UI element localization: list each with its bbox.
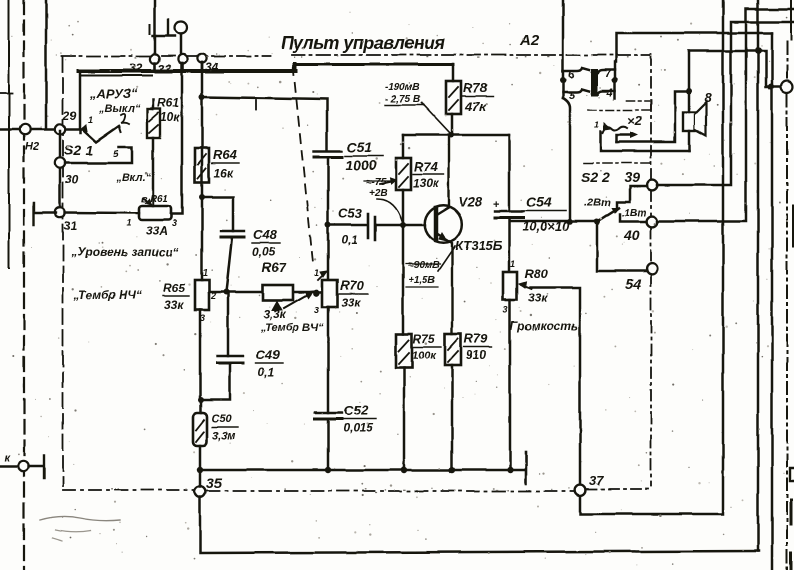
svg-text:С49: С49 (256, 347, 281, 362)
wire: node29 drop to node 30 and 31 (59, 131, 62, 212)
wire: ground stem into terminal 32 (154, 0, 157, 54)
svg-text:1: 1 (88, 115, 93, 125)
wire: (202,97) to C51 corner (202, 97, 327, 150)
svg-text:33к: 33к (164, 298, 184, 312)
terminal on left dashed border (bottom) (0, 465, 18, 468)
potentiometer R65 (195, 280, 209, 310)
svg-text:7: 7 (605, 68, 612, 80)
wire: node30 to Вкл contact hook (65, 147, 132, 163)
wire: R74 bottom through base node to R75 (402, 190, 405, 334)
R74 wiper arrow (380, 181, 394, 184)
wire: pot right to x182 riser (171, 63, 182, 214)
svg-text:Н2: Н2 (25, 141, 39, 153)
svg-text:0,05: 0,05 (252, 245, 276, 259)
svg-text:33: 33 (158, 62, 172, 76)
mechanical link dashed diagonal (293, 66, 313, 263)
svg-text:R65: R65 (163, 281, 185, 295)
svg-text:„АРУЗ“: „АРУЗ“ (89, 86, 138, 101)
svg-text:3: 3 (200, 313, 205, 323)
svg-text:3: 3 (503, 305, 508, 315)
wire: 39 right to riser x731 (657, 22, 794, 185)
wire: pin5 down to S2.2 common (563, 98, 570, 222)
wire: R70 bottom to C52 (327, 307, 330, 413)
X2 pin1 tick (604, 123, 611, 130)
svg-text:.1Вт: .1Вт (622, 208, 647, 219)
wire: C52 to bottom bus (327, 419, 330, 470)
capacitor C53 (368, 214, 375, 240)
node at (226,292) (223, 289, 229, 295)
switch S2.1 arm (84, 126, 119, 142)
svg-text:С50: С50 (211, 413, 232, 425)
S2.2 arm (597, 208, 619, 222)
potentiometer R70 (322, 280, 337, 307)
wire: R74 top lead (402, 135, 405, 158)
wire: vertical drop x=46 into y129 (45, 0, 48, 128)
transistor V28 body (425, 205, 463, 243)
svg-text:R61: R61 (157, 96, 179, 110)
svg-text:1: 1 (314, 268, 319, 278)
svg-text:.2Вт: .2Вт (584, 197, 611, 209)
wire: pivot down to 54 (597, 222, 646, 271)
link arrow R67 to R70 (284, 292, 312, 308)
terminal 54 (647, 264, 658, 275)
svg-text:39: 39 (624, 169, 640, 185)
svg-text:+2В: +2В (369, 188, 388, 199)
svg-text:1000: 1000 (345, 157, 376, 173)
R70 lead arrow (318, 272, 326, 280)
pointer +1,5B to emitter (438, 246, 455, 271)
dashed block border: top (dash-dot) (62, 55, 651, 56)
svg-text:32: 32 (129, 61, 143, 75)
svg-text:в R61: в R61 (141, 194, 169, 205)
wire: R79 bottom to bus (451, 365, 454, 470)
svg-text:R64: R64 (213, 147, 238, 162)
svg-text:- 2,75 В: - 2,75 В (385, 94, 421, 105)
svg-text:≈90мВ: ≈90мВ (408, 260, 439, 271)
node at (689,91) (686, 88, 692, 94)
node at (201,400) (198, 397, 204, 403)
svg-text:910: 910 (466, 348, 486, 362)
wire: pin7 up and right y=33 (616, 33, 772, 62)
dashed block border: bottom (63, 489, 194, 491)
wire: X2 pin1 to speaker top loop (617, 91, 689, 142)
base bar (434, 208, 439, 240)
wire: node31 to pot R61 (65, 211, 139, 214)
S2.2 common wire and pivot (594, 219, 600, 225)
wire: ground return loop bottom (200, 497, 759, 553)
X2 arrow (617, 135, 632, 142)
svg-text:5: 5 (113, 149, 119, 160)
collector lead (436, 135, 449, 215)
svg-text:10,0×10: 10,0×10 (522, 219, 570, 234)
S2.2 contact 40 (620, 214, 646, 222)
АРУЗ box left edge (79, 74, 82, 133)
svg-text:1: 1 (594, 120, 599, 130)
svg-text:100к: 100к (412, 350, 437, 362)
wire: 40 right to riser x747 (657, 9, 794, 222)
emitter lead with arrow (436, 233, 452, 334)
svg-text:29: 29 (62, 109, 77, 123)
svg-text:„Выкл“: „Выкл“ (98, 103, 141, 115)
terminal 40 (647, 216, 658, 227)
svg-text:4: 4 (606, 87, 613, 99)
stray tick (255, 100, 257, 110)
svg-text:С52: С52 (344, 403, 369, 418)
svg-text:С51: С51 (347, 139, 373, 155)
node 31 terminal (55, 207, 65, 217)
svg-text:R70: R70 (340, 278, 365, 293)
svg-text:6: 6 (568, 69, 575, 81)
svg-text:3,3к: 3,3к (263, 307, 287, 321)
dashed block border: right (650, 54, 652, 486)
wire: C51 bottom to junction (327, 157, 330, 280)
svg-text:С53: С53 (338, 206, 363, 221)
S2.2 dash-dot box top (584, 162, 652, 164)
terminal 33 (178, 54, 187, 63)
pointer from +2B to base node (377, 199, 402, 221)
svg-text:0,015: 0,015 (343, 421, 373, 435)
capacitor C52 (315, 412, 342, 414)
node at (403,225) (400, 222, 406, 228)
svg-text:„Тембр ВЧ“: „Тембр ВЧ“ (260, 322, 324, 334)
bus terminator bar (525, 452, 528, 484)
pointer -2,75B to collector node (422, 103, 450, 133)
scan speckle (257, 87, 259, 89)
resistor R75 (hatched) (396, 334, 412, 368)
svg-text:33к: 33к (341, 296, 361, 310)
node at (452,470) (449, 467, 455, 473)
sheet border left solid (8, 0, 10, 268)
wire: C48 bottom to tone wire (226, 237, 232, 292)
node 30 terminal (55, 158, 65, 168)
capacitor C50 (hatched body) (193, 413, 207, 446)
faint pencil scribble bottom-left (40, 516, 120, 520)
R67 wiper arrow below (272, 301, 282, 310)
trimmer R67 (263, 285, 293, 300)
svg-text:R79: R79 (464, 331, 489, 346)
svg-text:37: 37 (589, 473, 604, 488)
svg-text:А2: А2 (519, 32, 540, 49)
svg-text:130к: 130к (413, 176, 440, 190)
svg-text:R75: R75 (413, 332, 435, 346)
svg-text:3,3м: 3,3м (212, 430, 235, 442)
dash-dot under connector (588, 101, 651, 110)
svg-text:≈-75: ≈-75 (366, 177, 386, 188)
ground (chassis) symbol top-left (153, 20, 175, 36)
node diamond at (758,51) (755, 48, 762, 55)
svg-text:R74: R74 (414, 159, 439, 174)
R80 wiper arrow (521, 285, 531, 289)
sheet border left dashed (23, 0, 25, 570)
connector X1 left pin column from top (562, 0, 565, 98)
svg-text:33А: 33А (146, 224, 168, 238)
potentiometer R61 (horizontal) (139, 206, 171, 220)
node at (404,470) (401, 467, 407, 473)
node pin 6/5 junction (560, 77, 566, 83)
resistor R74 (hatched) (396, 158, 411, 190)
wire: 37 loop riser x723 (580, 0, 723, 514)
wire: terminal34 column down (201, 62, 204, 280)
terminal circle above node 33 (175, 22, 187, 34)
svg-text:8: 8 (704, 90, 712, 105)
svg-text:3: 3 (172, 218, 177, 228)
potentiometer R80 (503, 272, 517, 300)
wire: stub terminator left of node 31 (34, 203, 56, 225)
wire: collector rail y=135 (403, 134, 509, 137)
resistor R79 (hatched) (445, 334, 461, 365)
terminal 35 (195, 487, 206, 498)
node at (771,87) (768, 84, 774, 90)
svg-text:S2 1: S2 1 (64, 142, 93, 158)
capacitor C54 (495, 210, 523, 212)
supply bus y=71 (79, 64, 296, 71)
svg-text:5: 5 (569, 90, 576, 102)
resistor R78 (hatched) (446, 81, 461, 114)
wire: R75 bottom to bus (403, 368, 406, 470)
terminal 37 (575, 485, 586, 496)
svg-text:×2: ×2 (627, 113, 643, 128)
node at (570,222) (567, 219, 573, 225)
svg-text:34: 34 (205, 60, 219, 74)
border tick (0, 92, 12, 94)
svg-text:47к: 47к (464, 99, 487, 114)
svg-text:S2 2: S2 2 (581, 169, 610, 185)
right bracket pins 7 and 4 (592, 70, 615, 73)
capacitor C49 (217, 355, 243, 357)
svg-text:V28: V28 (459, 194, 483, 209)
svg-text:С48: С48 (253, 227, 278, 242)
wire: branch to C48 (202, 197, 233, 231)
wire: input line y=129 from left edge (0, 128, 80, 130)
connector hatched bar (591, 69, 598, 96)
node at (510,470) (507, 467, 513, 473)
svg-text:31: 31 (64, 219, 78, 233)
svg-text:16к: 16к (214, 166, 234, 180)
svg-text:33к: 33к (528, 291, 548, 305)
wire: C54 top lead (508, 135, 511, 211)
node at (202,97) (199, 94, 205, 100)
capacitor C48 (221, 230, 244, 232)
svg-text:„Тембр НЧ“: „Тембр НЧ“ (73, 288, 142, 302)
wire: R80 bottom to bus (509, 300, 512, 470)
wire: speaker top rail y=51 (689, 51, 781, 87)
terminal 34 (197, 53, 206, 62)
node 29 terminal (55, 124, 65, 134)
terminal 32 (150, 54, 159, 63)
svg-text:0,1: 0,1 (341, 233, 358, 247)
svg-text:R80: R80 (524, 266, 549, 281)
terminal 39 (647, 180, 658, 191)
resistor R64 (hatched) (195, 148, 209, 182)
node at (202,197) (199, 194, 205, 200)
resistor R61 (hatched) (147, 109, 160, 138)
node at (200,470) (197, 467, 203, 473)
bus stubs from terminals (155, 62, 202, 70)
terminal on right border (781, 81, 793, 93)
X2 squiggle (603, 127, 627, 133)
svg-text:2: 2 (210, 291, 216, 301)
wire: second pin to speaker bottom (601, 132, 689, 151)
bottom common bus y=470 (200, 469, 524, 471)
svg-text:С54: С54 (526, 194, 552, 210)
wire: R80 wiper to node 37 drop (530, 288, 580, 486)
right edge fragments of adjacent sheet (790, 0, 792, 40)
svg-text:1: 1 (203, 268, 208, 278)
svg-text:„Уровень записи“: „Уровень записи“ (70, 245, 179, 259)
sheet border right dash-dot (786, 42, 788, 570)
svg-text:3: 3 (314, 305, 319, 315)
wire: base line y=225 (328, 224, 425, 227)
wire: R65 bottom down to node (199, 310, 202, 400)
svg-text:Громкость: Громкость (510, 319, 578, 333)
C50 leads (200, 400, 201, 470)
node at (328,225) (325, 222, 331, 228)
wire: R61 leads (152, 100, 155, 206)
АРУЗ box top edge (80, 75, 152, 77)
svg-text:1: 1 (510, 259, 515, 269)
node H2 terminal (20, 124, 30, 134)
svg-text:54: 54 (626, 276, 642, 292)
svg-text:R67: R67 (262, 260, 287, 275)
wire: ground loop riser x758 (757, 0, 760, 551)
wire: tone pot line R65-R67-R70 (209, 291, 322, 293)
dashed block border: left (62, 57, 64, 486)
svg-text:-190мВ: -190мВ (385, 82, 420, 93)
switch S2.1 upper contact squiggle (121, 114, 129, 124)
capacitor C49 leads (201, 292, 230, 400)
svg-text:+1,5В: +1,5В (408, 275, 435, 286)
svg-text:0,1: 0,1 (258, 365, 275, 379)
speaker 8 (683, 112, 695, 131)
node at (328,470) (325, 467, 331, 473)
svg-text:10к: 10к (160, 110, 180, 124)
node pin 7/4 junction (612, 77, 618, 83)
svg-text:35: 35 (206, 475, 222, 491)
speaker leads (688, 51, 691, 151)
node at (451,135) (448, 132, 454, 138)
svg-text:к: к (4, 452, 11, 464)
svg-text:R78: R78 (463, 80, 488, 95)
left bracket pins 6 and 5 (563, 68, 589, 71)
junction at R70 left (313, 290, 320, 297)
wire: C54 bottom to R80 and to S2.2 (509, 218, 597, 272)
svg-text:+: + (493, 199, 499, 211)
svg-text:1: 1 (127, 218, 132, 228)
wire: R78 leads (452, 64, 453, 135)
svg-text:Пульт управления: Пульт управления (281, 33, 445, 53)
capacitor C51 (314, 150, 342, 152)
svg-text:30: 30 (65, 173, 79, 187)
wire: x772 drop from y33 rail (771, 33, 774, 570)
S2.2 contact 39 staircase (617, 186, 646, 209)
switch S2.1 fixed contact (80, 125, 87, 131)
svg-text:40: 40 (623, 227, 640, 243)
pot arrow (143, 198, 151, 205)
